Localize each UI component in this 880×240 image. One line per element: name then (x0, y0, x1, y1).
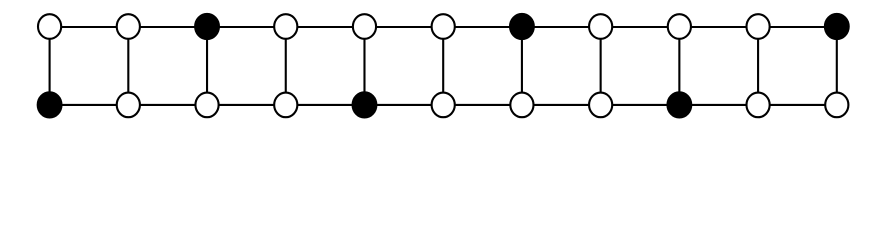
wire bottom edge B8-B9 (601, 104, 680, 106)
node B7 (bottom row, col 7, open) (510, 93, 533, 118)
wire top edge T3-T4 (207, 26, 286, 28)
node T5 (top row, col 5, open) (353, 14, 376, 39)
node T10 (top row, col 10, open) (746, 14, 769, 39)
wire rung T11-B11 (836, 27, 838, 105)
node B6 (bottom row, col 6, open) (432, 93, 455, 118)
wire rung T2-B2 (127, 27, 129, 105)
node B3 (bottom row, col 3, open) (195, 93, 218, 118)
wire top edge T2-T3 (128, 26, 207, 28)
node T7 (top row, col 7, filled) (510, 14, 534, 39)
wire top edge T9-T10 (679, 26, 758, 28)
node T4 (top row, col 4, open) (274, 14, 297, 39)
wire rung T3-B3 (206, 27, 208, 105)
node B9 (bottom row, col 9, filled) (667, 92, 691, 117)
node T6 (top row, col 6, open) (432, 14, 455, 39)
wire top edge T6-T7 (443, 26, 522, 28)
wire bottom edge B3-B4 (207, 104, 286, 106)
wire top edge T5-T6 (364, 26, 443, 28)
node B1 (bottom row, col 1, filled) (38, 92, 62, 117)
node T9 (top row, col 9, open) (668, 14, 691, 39)
wire rung T1-B1 (49, 27, 51, 105)
wire rung T5-B5 (363, 27, 365, 105)
wire bottom edge B10-B11 (758, 104, 837, 106)
wire rung T10-B10 (757, 27, 759, 105)
wire top edge T4-T5 (286, 26, 365, 28)
wire rung T7-B7 (521, 27, 523, 105)
wire bottom edge B2-B3 (128, 104, 207, 106)
node B11 (bottom row, col 11, open) (825, 93, 848, 118)
node T2 (top row, col 2, open) (117, 14, 140, 39)
wire bottom edge B9-B10 (679, 104, 758, 106)
wire rung T8-B8 (600, 27, 602, 105)
node T8 (top row, col 8, open) (589, 14, 612, 39)
wire top edge T10-T11 (758, 26, 837, 28)
wire rung T4-B4 (285, 27, 287, 105)
node B2 (bottom row, col 2, open) (117, 93, 140, 118)
node B5 (bottom row, col 5, filled) (353, 92, 377, 117)
wire bottom edge B4-B5 (286, 104, 365, 106)
wire top edge T7-T8 (522, 26, 601, 28)
wire bottom edge B6-B7 (443, 104, 522, 106)
node T11 (top row, col 11, filled) (825, 14, 849, 39)
wire bottom edge B1-B2 (50, 104, 129, 106)
node B10 (bottom row, col 10, open) (746, 93, 769, 118)
wire top edge T1-T2 (50, 26, 129, 28)
node B8 (bottom row, col 8, open) (589, 93, 612, 118)
wire top edge T8-T9 (601, 26, 680, 28)
wire rung T6-B6 (442, 27, 444, 105)
node T3 (top row, col 3, filled) (195, 14, 219, 39)
node B4 (bottom row, col 4, open) (274, 93, 297, 118)
node T1 (top row, col 1, open) (38, 14, 61, 39)
wire bottom edge B5-B6 (364, 104, 443, 106)
wire rung T9-B9 (678, 27, 680, 105)
wire bottom edge B7-B8 (522, 104, 601, 106)
